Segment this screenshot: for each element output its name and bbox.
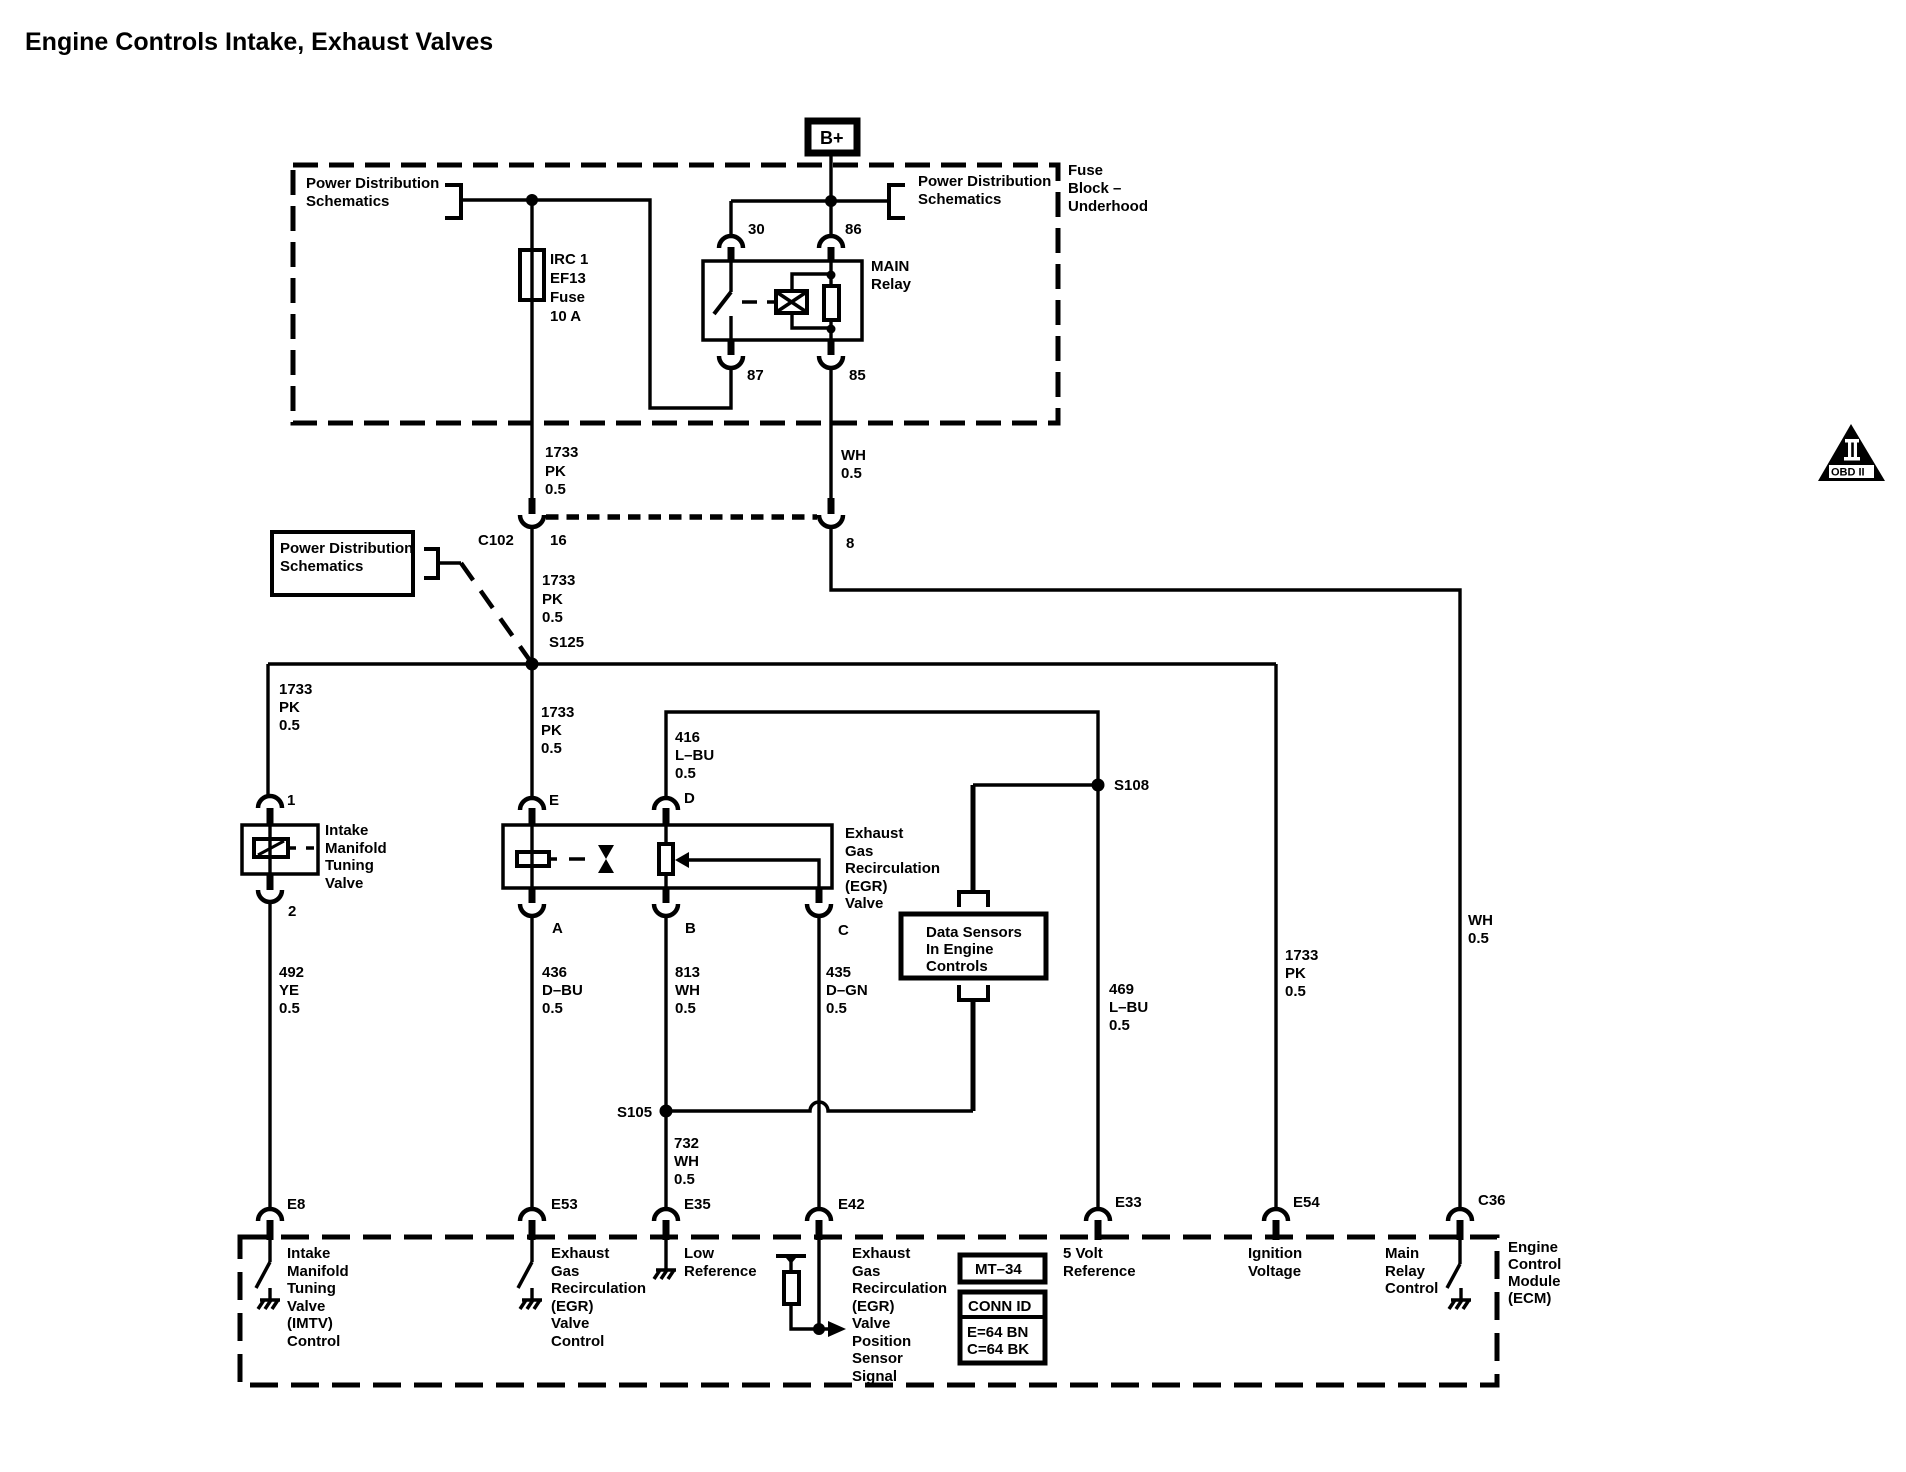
svg-text:Fuse: Fuse xyxy=(550,289,585,306)
relay switch contact xyxy=(729,261,732,340)
label: Power Distribution Schematics (top right) xyxy=(918,173,1051,208)
svg-text:5 Volt: 5 Volt xyxy=(1063,1245,1103,1262)
data sensors bottom bracket xyxy=(959,985,988,1000)
ECM connector E35 xyxy=(663,1220,670,1240)
svg-text:8: 8 xyxy=(846,535,854,552)
svg-text:WH: WH xyxy=(674,1153,699,1170)
wire stub from bracket xyxy=(438,561,461,564)
ground at E8 driver xyxy=(268,1288,271,1300)
wire: S105 rail with hop over E42 wire xyxy=(666,1102,973,1111)
relay internal junction dots xyxy=(827,271,836,280)
svg-text:Engine: Engine xyxy=(1508,1239,1558,1256)
junction dot at E42 signal xyxy=(813,1323,825,1335)
svg-text:492: 492 xyxy=(279,964,304,981)
exhaust gas recirculation EGR valve box xyxy=(503,825,832,888)
data sensors top bracket xyxy=(959,892,988,907)
svg-text:435: 435 xyxy=(826,964,851,981)
label: Ignition Voltage xyxy=(1248,1245,1302,1280)
label: Power Distribution Schematics (top left) xyxy=(306,175,439,210)
svg-text:C: C xyxy=(838,922,849,939)
wire: connector 8 right to C36 drop xyxy=(831,527,1460,1207)
svg-text:Module: Module xyxy=(1508,1273,1561,1290)
svg-text:(EGR): (EGR) xyxy=(852,1298,895,1315)
connector ID table xyxy=(960,1292,1045,1363)
EGR pin B connector xyxy=(663,888,670,903)
label: 416 L-BU 0.5 xyxy=(675,729,714,782)
wire: EGR pin D up and right to E33 drop xyxy=(666,712,1098,1207)
pin 85 connector xyxy=(828,339,835,355)
ECM connector C36 xyxy=(1457,1220,1464,1240)
svg-text:0.5: 0.5 xyxy=(542,609,563,626)
relay resistor xyxy=(824,286,839,320)
main relay U: box xyxy=(703,261,862,340)
svg-text:Recirculation: Recirculation xyxy=(852,1280,947,1297)
svg-text:B: B xyxy=(685,920,696,937)
svg-text:0.5: 0.5 xyxy=(1109,1017,1130,1034)
svg-text:Gas: Gas xyxy=(852,1263,880,1280)
EGR pin D connector xyxy=(663,808,670,825)
bracket to Power Distribution Schematics (top right) xyxy=(889,185,905,218)
wire: E42 sensing input xyxy=(817,1240,820,1329)
svg-text:Low: Low xyxy=(684,1245,714,1262)
svg-text:PK: PK xyxy=(542,591,563,608)
engine control module ECM dashed box xyxy=(240,1237,1497,1385)
svg-text:Gas: Gas xyxy=(845,843,873,860)
EGR wiper arrow xyxy=(686,860,819,888)
svg-text:(ECM): (ECM) xyxy=(1508,1290,1551,1307)
svg-text:EF13: EF13 xyxy=(550,270,586,287)
junction dot at fuse tap xyxy=(526,194,538,206)
label: 1733 PK 0.5 (E54 branch) xyxy=(1285,947,1318,1000)
label: Low Reference xyxy=(684,1245,757,1280)
svg-text:Position: Position xyxy=(852,1333,911,1350)
ECM connector E54 xyxy=(1273,1220,1280,1240)
EGR internal wire pin D/B xyxy=(664,825,667,888)
label: Exhaust Gas Recirculation (EGR) Valve Control xyxy=(551,1245,646,1350)
svg-text:S108: S108 xyxy=(1114,777,1149,794)
svg-text:1733: 1733 xyxy=(279,681,312,698)
wire: S125 to IMTV pin 1 xyxy=(266,664,269,796)
svg-text:0.5: 0.5 xyxy=(675,1000,696,1017)
svg-text:416: 416 xyxy=(675,729,700,746)
label: 435 D-GN 0.5 xyxy=(826,964,868,1017)
svg-text:0.5: 0.5 xyxy=(1468,930,1489,947)
svg-text:Data Sensors: Data Sensors xyxy=(926,924,1022,941)
svg-text:813: 813 xyxy=(675,964,700,981)
ground at C36 driver xyxy=(1459,1288,1462,1300)
svg-text:Tuning: Tuning xyxy=(325,857,374,874)
svg-text:1733: 1733 xyxy=(545,444,578,461)
label: WH 0.5 (above connector 8) xyxy=(841,447,866,482)
wire: fuse feed down to C102 xyxy=(530,200,533,498)
wire: EGR pin B down to E35 xyxy=(664,916,667,1207)
svg-text:(IMTV): (IMTV) xyxy=(287,1315,333,1332)
svg-text:Valve: Valve xyxy=(852,1315,890,1332)
ECM connector E53 xyxy=(529,1220,536,1240)
svg-text:Control: Control xyxy=(551,1333,604,1350)
IMTV actuation dashed link xyxy=(288,846,314,849)
dashed diagonal wire to S125 xyxy=(461,563,531,662)
ECM driver switch at E8 xyxy=(268,1240,271,1262)
relay coil branch wires xyxy=(792,274,831,328)
svg-text:S105: S105 xyxy=(617,1104,652,1121)
svg-text:30: 30 xyxy=(748,221,765,238)
svg-text:PK: PK xyxy=(279,699,300,716)
svg-text:(EGR): (EGR) xyxy=(551,1298,594,1315)
svg-text:Exhaust: Exhaust xyxy=(852,1245,910,1262)
bracket from Power Distribution Schematics box xyxy=(424,549,438,578)
svg-text:Signal: Signal xyxy=(852,1368,897,1385)
svg-text:0.5: 0.5 xyxy=(1285,983,1306,1000)
node S125 xyxy=(526,658,539,671)
wire: B+ down to relay pin 86 xyxy=(829,153,832,236)
label: Intake Manifold Tuning Valve xyxy=(325,822,387,892)
svg-text:0.5: 0.5 xyxy=(279,717,300,734)
svg-text:Underhood: Underhood xyxy=(1068,198,1148,215)
svg-text:1: 1 xyxy=(287,792,295,809)
label: Exhaust Gas Recirculation (EGR) Valve xyxy=(845,825,940,912)
svg-text:E33: E33 xyxy=(1115,1194,1142,1211)
svg-text:CONN ID: CONN ID xyxy=(968,1298,1032,1315)
svg-text:D–GN: D–GN xyxy=(826,982,868,999)
label: fuse IRC 1 EF13 Fuse 10 A xyxy=(550,251,588,325)
svg-text:Schematics: Schematics xyxy=(280,558,363,575)
svg-text:Exhaust: Exhaust xyxy=(845,825,903,842)
svg-text:Power Distribution: Power Distribution xyxy=(306,175,439,192)
svg-text:Relay: Relay xyxy=(871,276,912,293)
label: Power Distribution Schematics (middle left) box xyxy=(272,532,413,595)
svg-text:Schematics: Schematics xyxy=(306,193,389,210)
IMTV pin 2 connector xyxy=(267,874,274,890)
svg-text:87: 87 xyxy=(747,367,764,384)
svg-text:Relay: Relay xyxy=(1385,1263,1426,1280)
svg-text:0.5: 0.5 xyxy=(542,1000,563,1017)
wire: left bracket to fuse and relay pin 87 return xyxy=(461,200,731,408)
wire: C102 to S125 to EGR pin E xyxy=(530,527,533,797)
IMTV pin 1 connector xyxy=(267,808,274,825)
pin 30 connector xyxy=(728,247,735,262)
svg-text:0.5: 0.5 xyxy=(841,465,862,482)
label: WH 0.5 (C36 branch) xyxy=(1468,912,1493,947)
svg-text:Power Distribution: Power Distribution xyxy=(918,173,1051,190)
svg-text:732: 732 xyxy=(674,1135,699,1152)
svg-text:C=64 BK: C=64 BK xyxy=(967,1341,1029,1358)
svg-text:Valve: Valve xyxy=(287,1298,325,1315)
svg-text:D–BU: D–BU xyxy=(542,982,583,999)
svg-text:Manifold: Manifold xyxy=(325,840,387,857)
svg-text:PK: PK xyxy=(541,722,562,739)
svg-text:(EGR): (EGR) xyxy=(845,878,888,895)
node S108 xyxy=(1092,779,1105,792)
ECM pull-up supply bar at E42 xyxy=(776,1254,806,1258)
label: Exhaust Gas Recirculation (EGR) Valve Position Sensor Signal xyxy=(852,1245,947,1385)
svg-text:Control: Control xyxy=(1508,1256,1561,1273)
wire: EGR pin C down to E42 xyxy=(817,916,820,1207)
svg-text:Ignition: Ignition xyxy=(1248,1245,1302,1262)
svg-text:10 A: 10 A xyxy=(550,308,581,325)
label: 1733 PK 0.5 (left branch) xyxy=(279,681,312,734)
wire: S108 to data sensors xyxy=(973,783,1098,786)
svg-text:YE: YE xyxy=(279,982,299,999)
svg-text:L–BU: L–BU xyxy=(1109,999,1148,1016)
svg-text:1733: 1733 xyxy=(542,572,575,589)
EGR pin A connector xyxy=(529,888,536,903)
label: Intake Manifold Tuning Valve (IMTV) Control xyxy=(287,1245,349,1350)
svg-text:Tuning: Tuning xyxy=(287,1280,336,1297)
EGR position sensor element xyxy=(659,844,673,874)
label: 813 WH 0.5 xyxy=(675,964,700,1017)
label: 1733 PK 0.5 (center branch) xyxy=(541,704,574,757)
svg-text:Schematics: Schematics xyxy=(918,191,1001,208)
ECM connector E42 xyxy=(816,1220,823,1240)
svg-text:Power Distribution: Power Distribution xyxy=(280,540,413,557)
svg-text:436: 436 xyxy=(542,964,567,981)
data sensors in engine controls box xyxy=(901,914,1046,978)
svg-text:469: 469 xyxy=(1109,981,1134,998)
svg-text:WH: WH xyxy=(841,447,866,464)
label: 492 YE 0.5 xyxy=(279,964,304,1017)
svg-text:85: 85 xyxy=(849,367,866,384)
dashed connector interconnect line xyxy=(546,514,817,520)
label: Engine Control Module (ECM) xyxy=(1508,1239,1561,1307)
svg-text:E: E xyxy=(549,792,559,809)
ECM driver switch at C36 xyxy=(1458,1240,1461,1264)
svg-text:WH: WH xyxy=(675,982,700,999)
label: MAIN Relay xyxy=(871,258,912,293)
svg-text:Intake: Intake xyxy=(287,1245,330,1262)
svg-text:A: A xyxy=(552,920,563,937)
signal arrow at E42 xyxy=(828,1321,846,1337)
svg-text:E54: E54 xyxy=(1293,1194,1320,1211)
svg-text:Gas: Gas xyxy=(551,1263,579,1280)
IMTV solenoid winding xyxy=(254,839,288,857)
svg-text:Control: Control xyxy=(287,1333,340,1350)
ECM connector E8 xyxy=(267,1220,274,1240)
label: 436 D-BU 0.5 xyxy=(542,964,583,1017)
label: Fuse Block - Underhood xyxy=(1068,162,1148,215)
EGR pin C connector xyxy=(816,888,823,903)
wire: S125 horizontal rail xyxy=(268,662,1276,665)
pin 86 connector xyxy=(828,247,835,262)
svg-text:Valve: Valve xyxy=(845,895,883,912)
svg-text:1733: 1733 xyxy=(541,704,574,721)
svg-text:1733: 1733 xyxy=(1285,947,1318,964)
wire: IMTV pin 2 down to E8 xyxy=(268,902,271,1207)
svg-text:Reference: Reference xyxy=(1063,1263,1136,1280)
svg-text:D: D xyxy=(684,790,695,807)
IMTV internal wire xyxy=(268,825,271,874)
svg-text:Valve: Valve xyxy=(325,875,363,892)
svg-text:PK: PK xyxy=(1285,965,1306,982)
svg-text:Voltage: Voltage xyxy=(1248,1263,1301,1280)
svg-text:0.5: 0.5 xyxy=(541,740,562,757)
svg-text:2: 2 xyxy=(288,903,296,920)
intake manifold tuning valve box xyxy=(242,825,318,874)
ground at E53 driver xyxy=(530,1288,533,1300)
pin 87 connector xyxy=(728,339,735,355)
wire: data sensors down to S105 rail xyxy=(971,1000,976,1111)
svg-text:E=64 BN: E=64 BN xyxy=(967,1324,1028,1341)
svg-text:Valve: Valve xyxy=(551,1315,589,1332)
svg-text:C102: C102 xyxy=(478,532,514,549)
svg-text:E53: E53 xyxy=(551,1196,578,1213)
label: Main Relay Control xyxy=(1385,1245,1438,1297)
svg-text:Recirculation: Recirculation xyxy=(845,860,940,877)
svg-text:L–BU: L–BU xyxy=(675,747,714,764)
svg-text:E8: E8 xyxy=(287,1196,305,1213)
node S105 xyxy=(660,1105,673,1118)
svg-text:Reference: Reference xyxy=(684,1263,757,1280)
label: 1733 PK 0.5 (above C102) xyxy=(545,444,578,498)
wire: drop to data sensors bracket xyxy=(971,785,976,892)
ECM driver switch at E53 xyxy=(530,1240,533,1262)
wire: pin 85 down to connector 8 xyxy=(829,368,832,498)
svg-text:Engine Controls Intake, Exhaus: Engine Controls Intake, Exhaust Valves xyxy=(25,28,493,56)
svg-text:0.5: 0.5 xyxy=(675,765,696,782)
EGR internal wire pin E xyxy=(530,825,533,888)
B+ battery terminal xyxy=(808,121,857,153)
OBD II marker triangle xyxy=(1818,424,1885,481)
svg-text:Recirculation: Recirculation xyxy=(551,1280,646,1297)
label: 5 Volt Reference xyxy=(1063,1245,1136,1280)
svg-text:E42: E42 xyxy=(838,1196,865,1213)
ground at E35 low reference xyxy=(664,1240,667,1270)
wire: EGR pin A down to E53 xyxy=(530,916,533,1207)
svg-text:B+: B+ xyxy=(820,128,844,148)
connector C102 pin 16 xyxy=(529,498,536,514)
EGR pintle valve symbol xyxy=(598,845,614,873)
ECM connector E33 xyxy=(1095,1220,1102,1240)
reference box MT-34 xyxy=(960,1255,1045,1282)
svg-text:MT–34: MT–34 xyxy=(975,1261,1022,1278)
bracket to Power Distribution Schematics (top left) xyxy=(445,185,461,218)
wire: S125 to E54 ignition voltage xyxy=(1274,664,1277,1207)
svg-text:Exhaust: Exhaust xyxy=(551,1245,609,1262)
wire: top horizontal pin30 / B+ / right bracket xyxy=(731,201,889,236)
svg-text:Fuse: Fuse xyxy=(1068,162,1103,179)
svg-text:0.5: 0.5 xyxy=(545,481,566,498)
svg-text:C36: C36 xyxy=(1478,1192,1506,1209)
label: 1733 PK 0.5 (below C102) xyxy=(542,572,575,626)
svg-text:IRC 1: IRC 1 xyxy=(550,251,588,268)
svg-text:Block –: Block – xyxy=(1068,180,1121,197)
relay coil (box with X) xyxy=(776,291,807,313)
svg-text:0.5: 0.5 xyxy=(826,1000,847,1017)
svg-text:0.5: 0.5 xyxy=(279,1000,300,1017)
relay pin86-85 internal wire xyxy=(829,261,832,340)
svg-text:Controls: Controls xyxy=(926,958,988,975)
svg-text:Sensor: Sensor xyxy=(852,1350,903,1367)
svg-text:OBD II: OBD II xyxy=(1831,467,1865,479)
svg-text:Main: Main xyxy=(1385,1245,1419,1262)
svg-text:In Engine: In Engine xyxy=(926,941,994,958)
svg-text:E35: E35 xyxy=(684,1196,711,1213)
svg-text:MAIN: MAIN xyxy=(871,258,909,275)
fuse IRC1 EF13 xyxy=(520,250,544,300)
svg-text:PK: PK xyxy=(545,463,566,480)
label: 732 WH 0.5 xyxy=(674,1135,699,1188)
svg-text:Control: Control xyxy=(1385,1280,1438,1297)
junction dot at B+ branch xyxy=(825,195,837,207)
EGR pin E connector xyxy=(529,808,536,825)
svg-text:S125: S125 xyxy=(549,634,584,651)
svg-text:86: 86 xyxy=(845,221,862,238)
EGR solenoid winding xyxy=(517,852,549,866)
EGR actuation dashed link xyxy=(549,857,585,860)
ECM pull-up resistor at E42 xyxy=(789,1262,792,1272)
relay dashed actuation link xyxy=(742,300,776,303)
svg-text:0.5: 0.5 xyxy=(674,1171,695,1188)
svg-text:Manifold: Manifold xyxy=(287,1263,349,1280)
svg-text:WH: WH xyxy=(1468,912,1493,929)
svg-text:Intake: Intake xyxy=(325,822,368,839)
svg-text:16: 16 xyxy=(550,532,567,549)
fuse block underhood dashed box xyxy=(293,165,1058,423)
connector C102 pin 8 xyxy=(828,498,835,514)
label: 469 L-BU 0.5 xyxy=(1109,981,1148,1034)
